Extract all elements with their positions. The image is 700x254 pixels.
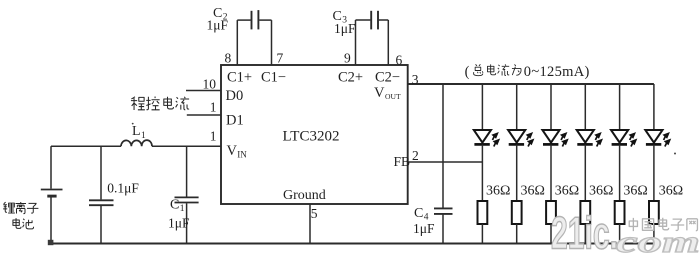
svg-text:C2−: C2− — [375, 69, 400, 85]
wire FB (pin 2) to first LED column — [408, 161, 483, 163]
svg-text:1: 1 — [180, 204, 185, 214]
svg-text:1μF: 1μF — [334, 21, 356, 36]
label total-current note latin part — [465, 64, 590, 80]
LED D4 — [577, 130, 606, 147]
svg-text:8: 8 — [225, 51, 232, 66]
capacitor 0.1uF top lead — [100, 146, 102, 199]
svg-text:C1+: C1+ — [227, 69, 252, 85]
wire LED4 cathode to resistor R4 — [584, 144, 586, 201]
wire VIN rail right segment (L1 to VIN pin) — [152, 145, 221, 147]
wire resistor R2 to ground bus — [516, 224, 518, 244]
label 总电流为 (total current note) — [474, 64, 522, 75]
battery B1 plates — [41, 190, 63, 197]
resistor R5 36ohm — [615, 201, 625, 224]
watermark 21ic.com 中国电子网 — [551, 208, 700, 254]
svg-text:Ground: Ground — [283, 188, 326, 203]
pin label VIN — [227, 143, 248, 160]
svg-text:D1: D1 — [226, 112, 244, 128]
wire resistor R3 to ground bus — [550, 224, 552, 244]
svg-text:(: ( — [465, 64, 470, 80]
svg-text:LTC3202: LTC3202 — [283, 128, 340, 144]
svg-text:L: L — [132, 124, 141, 139]
svg-text:10: 10 — [203, 76, 217, 91]
svg-text:36Ω: 36Ω — [589, 183, 613, 198]
capacitor 0.1uF bottom lead — [100, 206, 102, 244]
label C1 designator — [170, 198, 185, 215]
svg-text:D0: D0 — [226, 88, 244, 104]
label 锂离子 (battery name line 1) — [3, 202, 38, 214]
LED D1 — [474, 130, 503, 147]
wire LED1 cathode to resistor R1 — [481, 144, 483, 201]
resistor R6 36ohm — [649, 201, 659, 224]
svg-text:21ic.: 21ic. — [551, 208, 618, 254]
svg-text:1: 1 — [141, 131, 146, 141]
wire LED column 3 anode — [550, 84, 552, 130]
op-amp IC U1 LTC3202 body — [221, 65, 408, 204]
svg-text:5: 5 — [311, 206, 318, 221]
svg-text:0~125mA): 0~125mA) — [524, 64, 590, 80]
wire LED3 cathode to resistor R3 — [550, 144, 552, 201]
svg-text:36Ω: 36Ω — [521, 183, 545, 198]
capacitor C1 bottom lead — [186, 203, 188, 243]
svg-text:C2+: C2+ — [338, 69, 363, 85]
LED D3 — [542, 130, 571, 147]
capacitor C2 loop wires — [237, 19, 271, 21]
label C3 designator — [333, 9, 348, 26]
capacitor C1 plates — [175, 197, 199, 202]
wire resistor R5 to ground bus — [619, 224, 621, 244]
wire LED column 4 anode — [584, 84, 586, 130]
wire resistor R1 to ground bus — [481, 224, 483, 244]
svg-text:36Ω: 36Ω — [486, 183, 510, 198]
LED D6 — [645, 130, 673, 147]
svg-text:1: 1 — [210, 129, 217, 144]
wire D0 stub (pin 10) — [186, 90, 221, 92]
svg-text:36Ω: 36Ω — [555, 183, 579, 198]
svg-text:IN: IN — [237, 150, 247, 160]
svg-text:2: 2 — [412, 148, 419, 163]
wire pin 8 (C1+) — [236, 20, 238, 65]
CJK labels (hand-drawn glyphs) — [3, 64, 521, 229]
battery B1 top lead — [50, 146, 52, 188]
resistor R3 36ohm — [546, 201, 556, 224]
capacitor C1 top lead — [186, 146, 188, 196]
wire pin 7 (C1-) — [271, 20, 273, 65]
svg-text:1μF: 1μF — [207, 17, 229, 32]
wire LED2 cathode to resistor R2 — [516, 144, 518, 201]
capacitor C3 plates — [371, 11, 378, 30]
svg-text:1μF: 1μF — [168, 215, 190, 230]
svg-text:FB: FB — [394, 154, 411, 169]
LED D2 — [508, 130, 537, 147]
resistor R2 36ohm — [512, 201, 522, 224]
svg-text:V: V — [374, 85, 385, 101]
label 程控电流 (programmed current) — [131, 96, 189, 109]
svg-text:36Ω: 36Ω — [623, 183, 647, 198]
capacitor C3 loop wires — [356, 19, 389, 21]
LED/resistor columns — [474, 84, 674, 244]
wire pin 9 (C2+) — [355, 20, 357, 65]
watermark 中国电子网 — [629, 218, 697, 231]
speck artifact right — [674, 153, 676, 155]
junction blob at battery/ground corner — [48, 240, 54, 245]
capacitor C2 plates — [252, 10, 259, 29]
wire LED5 cathode to resistor R5 — [619, 144, 621, 201]
svg-text:6: 6 — [396, 53, 403, 68]
pin label VOUT — [374, 85, 401, 101]
wire resistor R4 to ground bus — [584, 224, 586, 244]
svg-text:V: V — [227, 143, 238, 159]
svg-text:1: 1 — [210, 100, 217, 115]
wire LED column 2 anode — [516, 84, 518, 130]
resistor R1 36ohm — [478, 201, 488, 224]
wire LED column 6 anode — [653, 84, 655, 130]
label 电池 (battery name line 2) — [13, 218, 34, 229]
inductor L1 coil — [121, 140, 152, 146]
label C4 designator — [414, 206, 429, 223]
wire ground bus (bottom rail) — [51, 243, 655, 245]
LED D5 — [611, 130, 640, 147]
battery B1 bottom lead — [50, 198, 52, 244]
svg-text:36Ω: 36Ω — [659, 183, 683, 198]
wire LED6 cathode to resistor R6 — [653, 144, 655, 201]
capacitor C4 bottom lead — [442, 215, 444, 244]
svg-text:9: 9 — [344, 51, 351, 66]
svg-text:C: C — [170, 198, 179, 213]
svg-text:7: 7 — [277, 51, 284, 66]
resistor R4 36ohm — [580, 201, 590, 224]
wire resistor R6 to ground bus — [653, 224, 655, 244]
wire LED column 5 anode — [619, 84, 621, 130]
wire pin 6 (C2-) — [387, 20, 389, 65]
svg-text:OUT: OUT — [385, 92, 401, 101]
label L1 designator — [132, 124, 146, 141]
svg-text:3: 3 — [412, 72, 419, 87]
wire D1 stub (pin 1) — [187, 114, 221, 116]
svg-text:0.1μF: 0.1μF — [107, 181, 139, 196]
wire C4 drop from VOUT bus — [442, 84, 444, 208]
wire VOUT top bus (pin 3) — [408, 83, 654, 85]
svg-text:C1−: C1− — [261, 69, 286, 85]
wire LED column 1 anode — [481, 84, 483, 130]
svg-text:C: C — [414, 206, 423, 221]
wire VIN rail left segment (battery + to L1) — [51, 145, 121, 147]
wire Ground pin 5 — [309, 204, 311, 244]
label C2 designator — [213, 6, 228, 23]
speck artifact left — [132, 123, 134, 125]
svg-text:1μF: 1μF — [413, 221, 435, 236]
capacitor 0.1uF plates — [89, 200, 114, 205]
capacitor C4 plates — [434, 208, 453, 214]
